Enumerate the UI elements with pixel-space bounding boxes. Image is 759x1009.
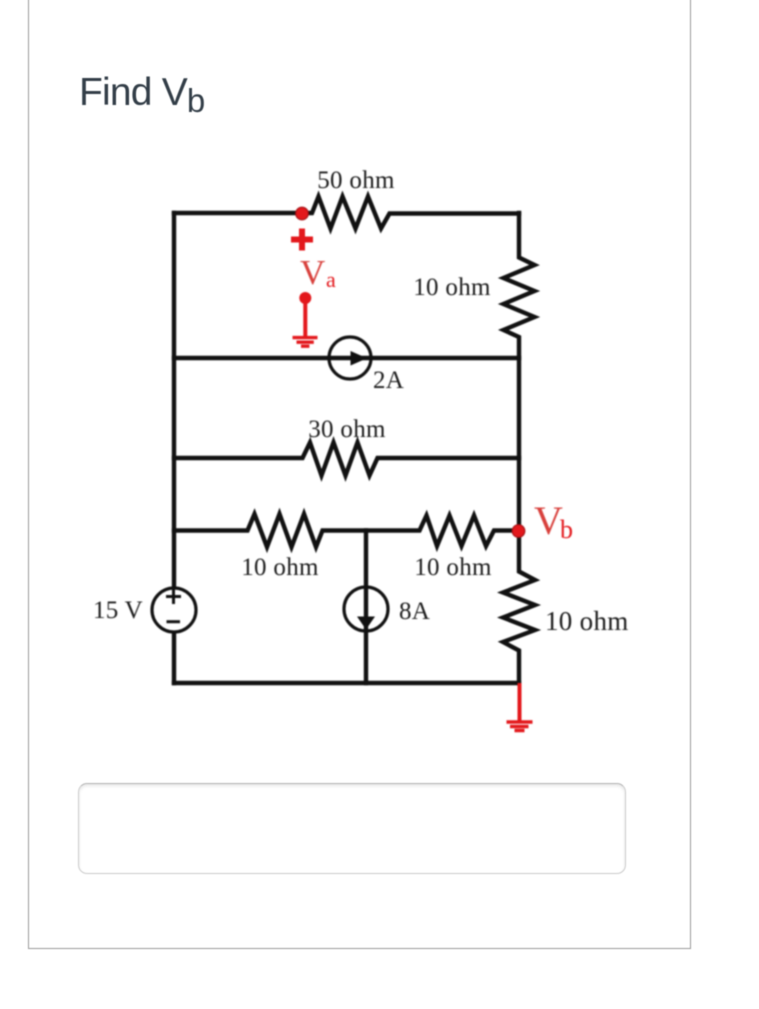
wire top row with resistor R 50ohm xyxy=(174,197,519,229)
svg-text:2A: 2A xyxy=(373,367,404,394)
current source I2 8A xyxy=(344,587,388,631)
svg-text:50 ohm: 50 ohm xyxy=(317,167,395,194)
ground symbol of Va (red) xyxy=(293,338,318,347)
red wire to bottom ground xyxy=(518,683,522,721)
svg-text:V: V xyxy=(534,498,563,543)
node dot Va lower (red) xyxy=(299,292,311,304)
wire row 4 with resistors 10ohm left and 10ohm right xyxy=(174,514,519,547)
current source I1 2A xyxy=(329,337,371,379)
arrow of 2A source xyxy=(351,351,368,366)
svg-text:a: a xyxy=(326,267,336,292)
plus sign red above Va xyxy=(291,229,313,251)
svg-text:10 ohm: 10 ohm xyxy=(414,554,492,581)
svg-text:10 ohm: 10 ohm xyxy=(241,554,319,581)
answer input box xyxy=(78,783,626,874)
wire left vertical lower xyxy=(172,633,176,683)
wire middle vertical to 8A xyxy=(364,531,368,684)
svg-text:b: b xyxy=(560,515,573,544)
svg-text:10 ohm: 10 ohm xyxy=(413,274,491,301)
ground symbol bottom (red) xyxy=(507,722,533,731)
wire bottom row xyxy=(174,681,519,685)
title Find Vb xyxy=(79,71,205,115)
node dot Vb (red) xyxy=(512,525,525,538)
node dot Va top (red) xyxy=(296,207,309,220)
svg-text:15 V: 15 V xyxy=(93,597,143,624)
svg-text:10 ohm: 10 ohm xyxy=(545,606,629,636)
wire right vertical with resistor 10ohm top and 10ohm bottom xyxy=(503,213,535,683)
svg-text:8A: 8A xyxy=(399,598,430,625)
wire row 2 xyxy=(174,356,519,360)
red wire to ground of Va xyxy=(303,299,307,336)
voltage source V1 15V xyxy=(152,588,196,632)
arrow of 8A source xyxy=(357,617,375,630)
svg-text:30 ohm: 30 ohm xyxy=(308,416,386,443)
wire left vertical upper xyxy=(172,213,176,587)
svg-text:V: V xyxy=(300,253,325,292)
plus sign of 15V xyxy=(166,589,181,604)
minus sign of 15V xyxy=(167,620,181,623)
wire row 3 with resistor 30ohm xyxy=(174,443,519,476)
